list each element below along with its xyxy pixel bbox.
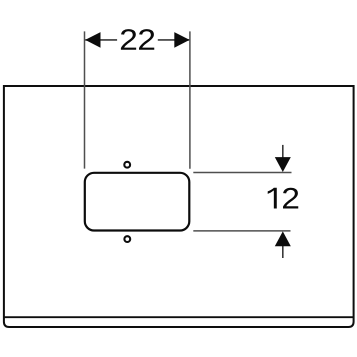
- label 22 digit 1: [121, 29, 136, 50]
- extension line left (dim 22): [84, 31, 86, 168]
- label 12 digit 2: [283, 188, 298, 209]
- arrowhead down (dim 12): [275, 157, 291, 172]
- hole circle top: [124, 162, 130, 168]
- label 22 digit 2: [139, 29, 154, 50]
- panel front-edge line: [4, 316, 354, 318]
- extension line top (dim 12): [193, 172, 291, 174]
- dimension tail bottom (dim 12): [282, 246, 284, 259]
- label 12 digit 1: [268, 188, 277, 209]
- dimension tail top (dim 12): [282, 145, 284, 159]
- dimension line 22 right segment: [158, 39, 189, 41]
- extension line bottom (dim 12): [193, 230, 290, 232]
- dimension line 22 left segment: [85, 39, 117, 41]
- arrowhead up (dim 12): [275, 231, 291, 246]
- extension line right (dim 22): [189, 31, 191, 168]
- hole circle bottom: [124, 236, 130, 242]
- arrowhead right (dim 22): [174, 32, 189, 48]
- arrowhead left (dim 22): [85, 32, 100, 48]
- panel outline: [4, 86, 354, 327]
- cutout rounded rectangle: [85, 173, 190, 231]
